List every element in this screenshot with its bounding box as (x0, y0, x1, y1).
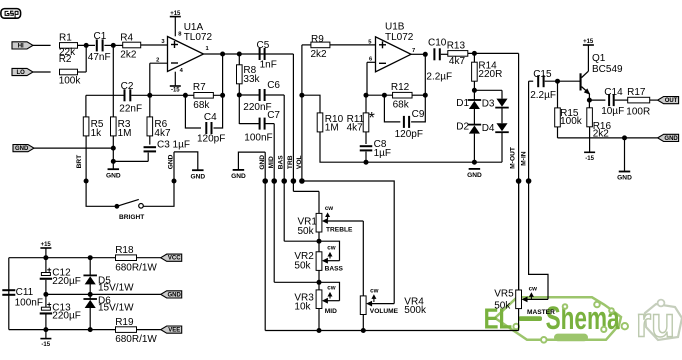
svg-text:cw: cw (529, 286, 537, 293)
svg-text:GND: GND (617, 175, 632, 182)
svg-text:50k: 50k (298, 226, 315, 237)
svg-text:BRT: BRT (76, 155, 83, 169)
svg-text:BRIGHT: BRIGHT (119, 214, 144, 221)
svg-text:100nF: 100nF (244, 133, 272, 144)
svg-text:120pF: 120pF (395, 129, 423, 140)
svg-text:GND: GND (664, 136, 678, 142)
svg-text:R12: R12 (391, 82, 410, 93)
svg-text:C3 1µF: C3 1µF (157, 139, 190, 150)
svg-text:R9: R9 (311, 34, 324, 45)
svg-text:7: 7 (412, 48, 415, 54)
svg-text:R7: R7 (193, 82, 206, 93)
svg-text:VCC: VCC (168, 256, 181, 262)
svg-text:120pF: 120pF (197, 133, 225, 144)
svg-text:GND: GND (231, 173, 246, 180)
svg-text:220µF: 220µF (52, 276, 81, 287)
svg-text:GND: GND (15, 146, 29, 152)
svg-text:50k: 50k (494, 301, 511, 312)
svg-text:100k: 100k (560, 116, 583, 127)
svg-text:500k: 500k (404, 305, 427, 316)
svg-text:-15: -15 (585, 156, 594, 162)
svg-text:R1: R1 (59, 33, 72, 44)
svg-text:GND: GND (106, 172, 121, 179)
svg-text:2k2: 2k2 (311, 49, 328, 60)
svg-text:GND: GND (467, 172, 482, 179)
svg-text:680R/1W: 680R/1W (115, 263, 157, 274)
svg-text:220R: 220R (478, 69, 502, 80)
svg-text:M-IN: M-IN (521, 151, 528, 166)
svg-text:BAS: BAS (278, 155, 285, 170)
svg-text:68k: 68k (193, 100, 210, 111)
svg-text:C1: C1 (94, 31, 107, 42)
svg-text:TL072: TL072 (184, 32, 213, 43)
svg-text:TL072: TL072 (385, 32, 414, 43)
svg-text:Shema: Shema (546, 300, 620, 336)
svg-text:HI: HI (18, 43, 24, 49)
svg-text:C6: C6 (267, 80, 280, 91)
svg-text:LO: LO (17, 70, 26, 76)
svg-text:10k: 10k (294, 302, 311, 313)
svg-text:100R: 100R (626, 107, 650, 118)
svg-text:cw: cw (327, 284, 335, 291)
svg-text:D2: D2 (456, 121, 469, 132)
svg-text:47nF: 47nF (88, 52, 111, 63)
svg-text:2.2µF: 2.2µF (426, 72, 452, 83)
svg-text:GND: GND (167, 154, 174, 169)
svg-text:1µF: 1µF (374, 148, 391, 159)
svg-text:BC549: BC549 (592, 64, 623, 75)
svg-text:D4: D4 (482, 123, 495, 134)
svg-text:4k7: 4k7 (154, 128, 171, 139)
svg-text:GND: GND (190, 173, 205, 180)
svg-text:C5: C5 (257, 40, 270, 51)
svg-text:50k: 50k (294, 261, 311, 272)
svg-text:ru: ru (636, 299, 675, 346)
svg-text:1M: 1M (118, 128, 132, 139)
svg-text:R4: R4 (120, 33, 133, 44)
svg-text:R13: R13 (447, 40, 466, 51)
svg-text:cw: cw (325, 205, 333, 212)
svg-text:R17: R17 (627, 87, 646, 98)
svg-text:C7: C7 (267, 110, 280, 121)
svg-text:R19: R19 (115, 317, 134, 328)
svg-text:33k: 33k (243, 74, 260, 85)
svg-text:4k7: 4k7 (347, 123, 364, 134)
svg-text:GND: GND (168, 292, 182, 298)
svg-text:2.2µF: 2.2µF (530, 90, 556, 101)
svg-text:GND: GND (259, 155, 266, 170)
svg-text:C15: C15 (533, 69, 552, 80)
svg-text:1M: 1M (325, 123, 339, 134)
svg-text:+15: +15 (170, 11, 181, 17)
svg-text:MID: MID (325, 308, 337, 315)
svg-text:C9: C9 (412, 109, 425, 120)
svg-text:4k7: 4k7 (449, 56, 466, 67)
svg-text:BASS: BASS (325, 265, 344, 272)
svg-text:VEE: VEE (168, 328, 180, 334)
svg-text:15V/1W: 15V/1W (98, 283, 134, 294)
svg-text:-15: -15 (171, 87, 180, 93)
svg-text:VOL: VOL (296, 156, 303, 170)
svg-text:MID: MID (268, 156, 275, 168)
svg-text:68k: 68k (393, 99, 410, 110)
svg-text:22nF: 22nF (119, 104, 142, 115)
svg-text:OUT: OUT (665, 98, 678, 104)
svg-text:15V/1W: 15V/1W (98, 303, 134, 314)
svg-text:D3: D3 (482, 98, 495, 109)
svg-text:+15: +15 (41, 242, 52, 248)
svg-text:cw: cw (370, 288, 378, 295)
svg-text:+15: +15 (583, 39, 594, 45)
svg-text:*: * (369, 110, 375, 127)
svg-text:100nF: 100nF (15, 298, 43, 309)
svg-text:C14: C14 (604, 87, 623, 98)
svg-text:TRB: TRB (287, 155, 294, 169)
svg-text:220µF: 220µF (52, 311, 81, 322)
svg-text:cw: cw (327, 244, 335, 251)
svg-text:M-OUT: M-OUT (510, 147, 517, 169)
svg-text:1k: 1k (91, 128, 103, 139)
svg-text:680R/1W: 680R/1W (115, 334, 157, 345)
svg-text:Q1: Q1 (592, 53, 606, 64)
svg-text:VR5: VR5 (494, 289, 514, 300)
svg-text:VOLUME: VOLUME (370, 308, 399, 315)
svg-text:MASTER: MASTER (527, 309, 555, 316)
svg-text:R18: R18 (115, 245, 134, 256)
svg-text:2k2: 2k2 (120, 49, 137, 60)
svg-text:C2: C2 (121, 81, 134, 92)
svg-text:R2: R2 (59, 54, 72, 65)
svg-text:C4: C4 (204, 112, 217, 123)
svg-text:1nF: 1nF (260, 60, 277, 71)
svg-text:100k: 100k (59, 76, 82, 87)
svg-text:C11: C11 (16, 287, 34, 298)
svg-text:D1: D1 (456, 98, 469, 109)
svg-text:C10: C10 (428, 37, 447, 48)
svg-text:10µF: 10µF (601, 106, 624, 117)
svg-text:TREBLE: TREBLE (326, 226, 353, 233)
svg-text:-15: -15 (41, 342, 50, 348)
